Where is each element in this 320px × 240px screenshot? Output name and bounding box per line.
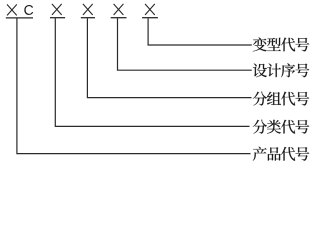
label 产品代号 [253, 147, 309, 161]
leader wire 4 to she-ji-xu-hao [118, 18, 252, 70]
symbol X4 [114, 4, 123, 14]
label 设计序号 [253, 63, 309, 77]
underline bar 1 [6, 17, 33, 19]
symbol X2 [52, 4, 61, 14]
leader wire 2 to fen-lei-dai-hao [55, 18, 249, 126]
leader wire 5 to bian-xing-dai-hao [148, 18, 252, 45]
letter C [24, 5, 33, 15]
symbol X1 [7, 5, 16, 15]
underline bar 5 [142, 17, 158, 19]
symbol X5 [145, 4, 154, 14]
symbol X3 [83, 4, 92, 14]
underline bar 2 [50, 17, 65, 19]
leader wire 3 to fen-zu-dai-hao [87, 18, 251, 97]
underline bar 3 [81, 17, 95, 19]
leader wire 1 to chan-pin-dai-hao [17, 18, 251, 153]
label 分组代号 [253, 92, 310, 106]
label 变型代号 [253, 37, 309, 51]
underline bar 4 [111, 17, 127, 19]
label 分类代号 [253, 120, 310, 134]
